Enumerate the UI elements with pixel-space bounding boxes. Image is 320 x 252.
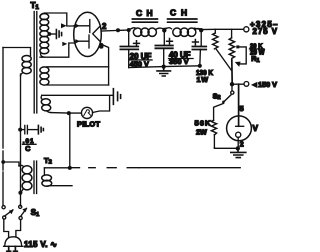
ground VR (231, 148, 246, 157)
transformer T1 5V winding (40, 67, 49, 73)
svg-text:S1: S1 (31, 208, 40, 218)
svg-text:2: 2 (240, 141, 244, 148)
rectifier plate A (74, 20, 90, 33)
wire S2 to 56K (214, 103, 224, 120)
wire filament dashed line (72, 167, 139, 169)
terminal B+ output (244, 27, 249, 32)
wire 5V winding top (47, 66, 109, 68)
rectifier tube envelope (74, 12, 102, 56)
wire primary bottom leg (20, 74, 22, 206)
svg-text:C: C (25, 146, 30, 153)
wire HV bottom to plate B (40, 43, 75, 57)
resistor 56K (211, 120, 216, 135)
node HV center tap (48, 32, 52, 36)
node ground bus C3 (198, 64, 202, 68)
switch S1 pole A contact (2, 206, 5, 209)
AC plug (4, 237, 23, 247)
svg-text:CH: CH (136, 8, 153, 18)
wire to +150V terminal (232, 83, 244, 85)
transformer T2 secondary winding (43, 168, 45, 175)
svg-text:115 V. ∿: 115 V. ∿ (24, 240, 57, 249)
capacitor C1 20uF (128, 30, 130, 46)
rectifier filament (93, 26, 101, 42)
wire pilot right to ground wire (93, 96, 110, 113)
ground 6.3V (sideways) (113, 89, 120, 105)
wire pin8 down (102, 45, 109, 86)
switch S1 pole A arm (5, 210, 13, 216)
wire switch to plug right (16, 220, 21, 237)
wire T2 secondary bottom stub (47, 185, 72, 187)
svg-text:2W: 2W (196, 128, 207, 137)
wire VR anode (238, 84, 240, 126)
wire 5V winding bottom (47, 84, 109, 86)
choke CH1 winding (132, 28, 136, 29)
wire 6.3V top to ground (42, 94, 113, 96)
node B+ output (199, 28, 203, 32)
node T2 primary bottom (18, 191, 22, 195)
arrowhead A lead (61, 23, 67, 28)
node pilot junction (67, 111, 71, 115)
node AC left to T2 (1, 160, 5, 164)
svg-text:◄150 V: ◄150 V (251, 80, 277, 89)
switch S1 pole B arm (21, 208, 27, 216)
B+ bus wire (118, 28, 244, 30)
wire 56K to VR cathode (214, 147, 236, 150)
node choke junction (162, 28, 166, 32)
resistor 130K (214, 29, 216, 33)
node T2 secondary junction (68, 166, 72, 170)
svg-text:275 V: 275 V (253, 27, 278, 36)
node line cap junction (18, 128, 22, 132)
wire 6.3V bottom to pilot (51, 112, 81, 115)
node ground bus C2 (162, 65, 166, 69)
transformer T1 6.3V winding (41, 96, 42, 100)
transformer T1 primary winding (30, 48, 32, 56)
svg-text:PILOT: PILOT (77, 119, 100, 128)
resistor R1 20K pot (231, 29, 233, 38)
svg-text:56K: 56K (195, 119, 212, 128)
terminal +150V (244, 82, 249, 87)
rectifier plate B (75, 35, 90, 48)
wire filament line solid (139, 167, 240, 169)
wire switch to plug left (4, 219, 9, 237)
wire T2 secondary top (44, 167, 69, 169)
ground filter (157, 67, 171, 77)
wire center tap (49, 33, 55, 35)
node VR ground (236, 146, 240, 150)
svg-text:V: V (253, 124, 259, 133)
choke CH1 core (132, 19, 157, 22)
wire AC line left leg (2, 48, 4, 149)
wire primary top to AC line (3, 47, 31, 49)
transformer T1 core (34, 12, 37, 114)
switch S2 (231, 84, 233, 91)
svg-text:S2: S2 (213, 91, 221, 101)
capacitor C2 40uF (163, 30, 165, 45)
wire ground bus (129, 66, 200, 68)
wire HV top to plate A (45, 13, 75, 26)
ground center tap (sideways) (56, 30, 61, 39)
ground line cap (sideways) (38, 125, 43, 133)
transformer T2 primary winding (19, 165, 24, 166)
wire AC left to T2 primary top (3, 162, 19, 166)
wire pilot junction down to T2 (69, 113, 71, 168)
transformer T1 HV secondary winding (41, 13, 45, 16)
svg-text:T1: T1 (31, 1, 40, 11)
wire pin2 to B+ bus (101, 29, 118, 32)
VR tube anode bar (236, 125, 244, 127)
svg-text:CH: CH (170, 8, 187, 18)
choke CH2 core (168, 19, 197, 22)
capacitor C line bypass (20, 129, 24, 131)
node B+ tube (116, 28, 120, 32)
switch S1 pole B contact (19, 205, 22, 208)
svg-text:1 W: 1 W (197, 75, 209, 84)
node +150V junction (230, 82, 234, 86)
transformer T2 core (34, 161, 37, 194)
choke CH2 winding (167, 28, 172, 29)
svg-text:350 V: 350 V (169, 57, 189, 66)
VR tube cathode (236, 132, 241, 137)
capacitor C3 output (200, 30, 202, 46)
svg-text:T2: T2 (44, 156, 52, 166)
VR tube envelope (227, 116, 252, 141)
svg-text:5: 5 (240, 104, 244, 113)
arrowhead B lead (62, 42, 67, 46)
pilot lamp (81, 107, 92, 118)
node B+ cap1 (127, 28, 131, 32)
svg-text:2: 2 (102, 22, 107, 31)
